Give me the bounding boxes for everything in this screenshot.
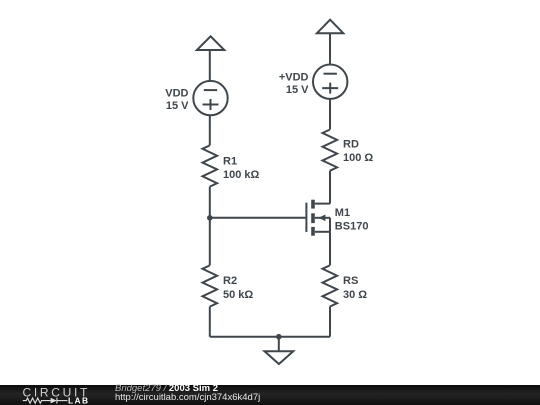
svg-text:50 kΩ: 50 kΩ [223, 289, 253, 301]
svg-text:15 V: 15 V [166, 100, 189, 112]
wire: V2 bottom to RD top [329, 99, 331, 130]
node gate junction dot [207, 215, 213, 221]
footer bar [0, 385, 540, 405]
ground [265, 351, 294, 364]
label VDD 15 V [165, 88, 189, 113]
label RS 30 Ω [343, 275, 367, 301]
svg-text:R2: R2 [223, 275, 237, 287]
voltage source V1 (VDD 15 V) [193, 81, 227, 115]
wire: gate node to M1 gate [210, 217, 307, 219]
wire: +VDD flag to V2 top [329, 33, 331, 64]
svg-text:15 V: 15 V [286, 84, 309, 96]
node ground junction dot [276, 334, 282, 340]
credit text [115, 384, 260, 403]
wire: R2 bottom to ground rail [209, 307, 211, 337]
resistor RS [323, 265, 338, 306]
resistor R2 [203, 265, 218, 306]
svg-text:R1: R1 [223, 155, 237, 167]
wire: bottom ground rail [210, 336, 330, 338]
svg-text:100 Ω: 100 Ω [343, 152, 373, 164]
svg-text:M1: M1 [335, 207, 350, 219]
resistor RD [323, 130, 338, 171]
wire: VDD flag to V1 top [209, 50, 211, 81]
svg-text:BS170: BS170 [335, 221, 369, 233]
label RD 100 Ω [343, 138, 373, 164]
svg-text:RD: RD [343, 138, 359, 150]
svg-text:100 kΩ: 100 kΩ [223, 169, 260, 181]
CircuitLab logo [0, 385, 100, 405]
svg-text:30 Ω: 30 Ω [343, 289, 367, 301]
power flag VDD (left supply arrow) [197, 36, 224, 50]
wire: rail to ground symbol [278, 337, 280, 351]
wire: RD bottom to M1 drain [329, 171, 331, 204]
transistor M1 (NMOS BS170) [306, 200, 330, 236]
power flag +VDD (right supply arrow) [317, 20, 343, 34]
svg-text:LAB: LAB [68, 395, 89, 405]
wire: V1 bottom to R1 top [209, 115, 211, 145]
label R1 100 kΩ [223, 155, 260, 181]
resistor R1 [203, 145, 218, 186]
label +VDD 15 V [279, 71, 309, 96]
wire: R1 bottom to R2 top (through gate node) [209, 187, 211, 266]
wire: RS bottom to ground rail [329, 307, 331, 337]
svg-text:+VDD: +VDD [279, 71, 309, 83]
label R2 50 kΩ [223, 275, 253, 301]
label M1 BS170 [335, 207, 369, 232]
wire: M1 source to RS top [329, 232, 331, 266]
voltage source V2 (+VDD 15 V) [313, 65, 347, 99]
svg-text:VDD: VDD [165, 88, 188, 100]
svg-text:RS: RS [343, 275, 358, 287]
